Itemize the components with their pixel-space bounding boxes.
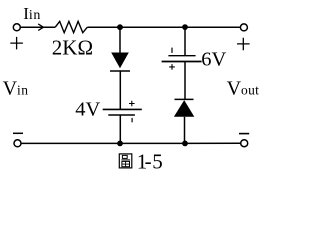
diode D2 (pointing up) — [174, 99, 194, 116]
svg-text:6V: 6V — [201, 48, 226, 70]
wire: battery 4V to node C — [119, 115, 121, 143]
label − at output (bottom-right) — [239, 133, 249, 135]
battery B2 (6V) — [162, 56, 202, 62]
input terminal + (top-left) — [13, 24, 20, 31]
label + at output (top-right) — [237, 38, 250, 51]
wire: D1 cathode to battery 4V — [119, 71, 121, 109]
wire: node B to output terminal — [185, 26, 240, 28]
wire: node D to bottom-right terminal — [185, 142, 241, 144]
label − at input (bottom-left) — [13, 132, 23, 134]
wire: D2 anode to node D — [184, 117, 186, 144]
wire: node A down to diode D1 anode — [119, 27, 121, 53]
output terminal − (bottom-right) — [241, 140, 248, 147]
svg-text:Vin: Vin — [3, 78, 29, 100]
wire: node B down to battery 6V — [184, 27, 186, 56]
wire: node C to node D — [120, 142, 185, 144]
wire: resistor to node A — [87, 26, 120, 28]
node A (junction of resistor, D1 branch) — [117, 24, 123, 30]
label + of battery 4V — [129, 101, 135, 107]
svg-text:4V: 4V — [75, 99, 100, 121]
current arrow Iin (arrowhead on wire) — [38, 24, 43, 31]
diode D1 (pointing down) — [110, 53, 130, 72]
battery B1 (4V) — [103, 109, 142, 115]
output terminal + (top-right) — [240, 24, 247, 31]
label − tick of battery 6V — [171, 48, 173, 53]
svg-text:Iin: Iin — [23, 4, 41, 23]
wire: top-left terminal to resistor — [20, 26, 55, 28]
label + at input (top-left) — [10, 37, 23, 50]
node B (junction of top wire and 6V branch) — [182, 24, 188, 30]
svg-text:-: - — [145, 149, 152, 173]
resistor R (2KΩ) — [55, 21, 87, 32]
wire: bottom-left terminal to node C — [21, 142, 120, 144]
node C (bottom junction of D1 branch) — [117, 141, 123, 147]
wire: node A to node B — [120, 26, 185, 28]
svg-text:Vout: Vout — [227, 77, 260, 99]
caption character 圖 (drawn) — [119, 154, 132, 168]
label − tick of battery 4V — [131, 118, 133, 122]
svg-text:2KΩ: 2KΩ — [52, 35, 93, 59]
label + of battery 6V — [169, 64, 175, 70]
node D (bottom junction of 6V/D2 branch) — [182, 141, 188, 147]
wire: battery 6V to diode D2 cathode — [184, 62, 186, 100]
svg-text:5: 5 — [152, 150, 163, 174]
input terminal − (bottom-left) — [14, 140, 21, 147]
